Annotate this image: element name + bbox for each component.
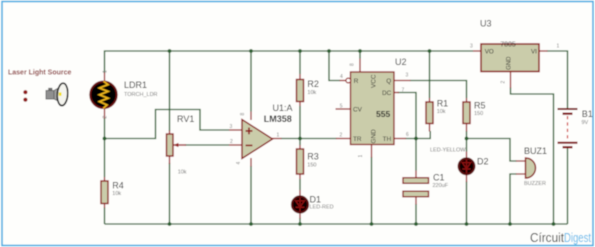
svg-text:2: 2 [103,116,109,119]
svg-text:U1:A: U1:A [273,103,293,113]
wire 555 vcc pin 8 [359,51,361,59]
svg-text:R4: R4 [112,180,124,190]
junction bottom rail RV1 [168,222,172,226]
regulator U3 7805 [470,19,560,89]
svg-text:CV: CV [353,107,363,114]
wire R4 column [104,139,106,178]
buzzer BUZ1 [516,146,547,187]
resistor R1 [426,98,448,132]
junction bottom rail op-amp pin 4 [249,222,253,226]
svg-text:220uF: 220uF [433,183,449,189]
555 timer U2 [336,57,411,158]
svg-text:R5: R5 [474,101,486,111]
LDR1 [90,70,157,119]
svg-text:4: 4 [340,74,343,80]
svg-text:8: 8 [240,113,246,116]
torch icon [46,83,68,106]
svg-text:1: 1 [557,44,560,50]
wire buzzer bottom [510,174,517,224]
wire 555 reset pin 4 net [329,51,340,81]
junction top rail op-amp pin 8 [249,49,253,53]
potentiometer RV1 [167,114,195,176]
svg-text:D1: D1 [310,195,322,205]
op-amp U1:A [229,103,293,167]
svg-text:7805: 7805 [500,42,516,49]
svg-text:TR: TR [353,136,362,143]
wire R4 to bottom rail [104,208,106,225]
resistor R3 [297,145,319,179]
svg-text:4: 4 [236,162,242,165]
resistor R4 [101,177,124,208]
svg-text:2: 2 [230,139,233,145]
junction top rail 555 vcc [358,49,362,53]
svg-text:3: 3 [470,44,473,50]
wire LDR bottom to node A [104,118,106,139]
wire op-amp pin 4 [250,166,252,224]
CircuitDigest logo [530,230,591,245]
svg-text:VI: VI [531,49,537,56]
svg-text:Q: Q [386,78,391,85]
junction top rail RV1 [168,49,172,53]
svg-text:LED-RED: LED-RED [310,205,334,211]
wire RV1 wiper to op-amp pin 2 [185,144,229,146]
wire op-amp pin 8 [250,51,252,112]
wire Q net to buzzer [467,139,517,162]
svg-text:Laser Light Source: Laser Light Source [8,70,72,77]
wire 555 discharge to threshold [398,93,417,139]
wire battery bottom [567,148,569,225]
svg-text:10k: 10k [437,109,446,115]
svg-text:10k: 10k [112,191,121,197]
junction bottom rail 555 gnd [370,222,374,226]
svg-text:U2: U2 [395,57,407,67]
svg-text:1: 1 [277,133,280,139]
wire C1 top [415,139,417,171]
wire 7805 output to rail (red stub drawn later) [547,51,568,109]
svg-text:LDR1: LDR1 [124,80,147,90]
junction top rail R1 [428,49,432,53]
svg-text:1: 1 [358,155,364,158]
svg-text:TH: TH [383,136,392,143]
wire R1 column [429,51,431,98]
wire 555 Q output to R5 [410,81,467,99]
wire RV1 top column [169,51,171,131]
wire R3 to D1 [299,179,301,224]
junction top rail 555 reset [327,49,331,53]
resistor R5 [463,98,486,132]
svg-text:1: 1 [103,70,109,73]
svg-text:Círcuit: Círcuit [530,230,564,245]
junction bottom rail D2 [465,222,469,226]
svg-text:Digest: Digest [564,230,591,245]
junction bottom rail 7805 gnd [552,222,556,226]
wire C1 bottom [415,204,417,224]
battery B1 [558,109,593,147]
svg-text:LM358: LM358 [264,114,292,124]
svg-text:150: 150 [307,163,316,169]
svg-text:R3: R3 [307,152,319,162]
junction output node [298,137,302,141]
wire bottom rail [105,223,568,225]
wire RV1 bottom column [169,163,171,224]
svg-text:10k: 10k [178,170,187,176]
svg-text:R: R [354,78,359,85]
junction bottom rail buzzer [508,222,512,226]
svg-text:R2: R2 [307,79,319,89]
svg-text:RV1: RV1 [177,114,194,124]
svg-text:BUZZER: BUZZER [524,181,546,187]
svg-text:LED-YELLOW: LED-YELLOW [430,147,466,153]
svg-text:10k: 10k [307,90,316,96]
svg-text:BUZ1: BUZ1 [524,146,547,156]
wire R2 column [299,51,301,145]
junction threshold R5 D2 [465,137,469,141]
svg-text:3: 3 [406,73,409,79]
svg-text:GND: GND [371,129,378,144]
svg-text:150: 150 [474,111,483,117]
wire R5 to D2 [466,131,468,224]
LED D1 [292,190,334,219]
svg-text:B1: B1 [582,109,593,119]
wire node A to op-amp pin 3 [105,110,230,139]
wire 555 gnd pin 1 [371,157,373,224]
junction threshold C1 [414,137,418,141]
laser beam dots [23,90,27,94]
svg-text:C1: C1 [433,173,445,183]
svg-text:9V: 9V [582,120,589,126]
wire top rail [105,51,474,73]
junction top rail R2 [298,49,302,53]
svg-text:555: 555 [376,109,390,119]
wire threshold net [406,131,431,139]
svg-text:D2: D2 [477,157,489,167]
svg-text:3: 3 [230,124,233,130]
svg-text:7: 7 [402,88,405,94]
wire op-amp output net [281,138,337,140]
svg-text:2: 2 [340,132,343,138]
svg-text:6: 6 [406,132,409,138]
svg-text:GND: GND [507,56,513,70]
junction bottom rail D1 [298,222,302,226]
svg-text:TORCH_LDR: TORCH_LDR [124,92,158,98]
svg-text:2: 2 [501,81,507,84]
junction node A [103,137,107,141]
svg-text:R1: R1 [437,98,449,108]
LED D2 [430,147,489,182]
svg-text:DC: DC [382,90,392,97]
svg-text:VCC: VCC [371,74,378,88]
svg-text:5: 5 [340,104,343,110]
capacitor C1 [403,171,449,205]
svg-text:U3: U3 [480,19,492,29]
wire 7805 gnd net [511,88,554,225]
svg-text:VO: VO [485,49,494,56]
svg-text:8: 8 [350,63,356,66]
resistor R2 [297,74,319,106]
junction bottom rail C1 [414,222,418,226]
